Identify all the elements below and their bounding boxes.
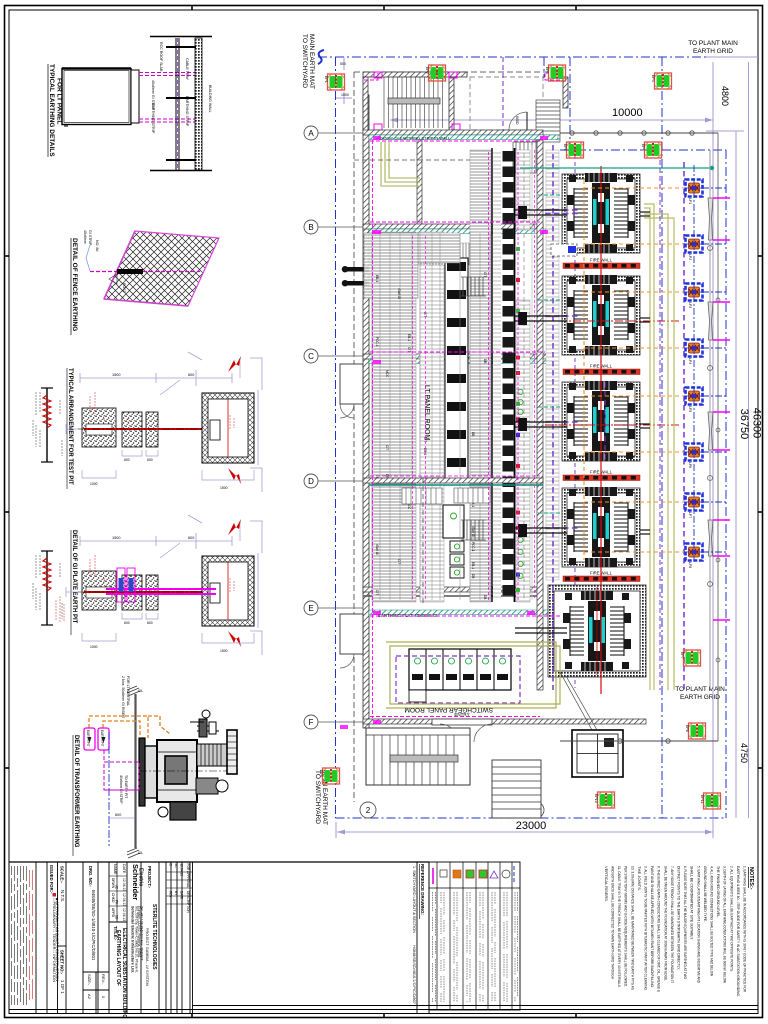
svg-text:5. EARTHING LAYOUT/EARTHING PI: 5. EARTHING LAYOUT/EARTHING PIT LOCATION… bbox=[696, 866, 701, 983]
svg-text:DATE: DATE bbox=[180, 891, 184, 899]
transformer body side view bbox=[139, 710, 237, 820]
svg-text:PROJECT:-: PROJECT:- bbox=[147, 866, 152, 889]
street light poles in plan bbox=[708, 198, 713, 556]
svg-text:C/T: C/T bbox=[407, 347, 411, 352]
external stair top right bbox=[513, 100, 560, 173]
svg-text:600: 600 bbox=[124, 621, 130, 625]
svg-text:EB-1: EB-1 bbox=[423, 448, 427, 455]
magenta earth strips bbox=[340, 73, 560, 729]
svg-text:A: A bbox=[308, 129, 314, 138]
svg-text:B4848/SE/SD-1/4810-1/C/PIC/D/8: B4848/SE/SD-1/4810-1/C/PIC/D/801 bbox=[91, 890, 96, 961]
fire wall bars bbox=[563, 263, 640, 269]
building right wall bbox=[537, 140, 543, 690]
svg-text:REFERENCE DRAWING:: REFERENCE DRAWING: bbox=[420, 864, 425, 916]
svg-text:Tel: +91 124 3940400 Fax: 3940: Tel: +91 124 3940400 Fax: 3940407 bbox=[140, 906, 144, 961]
row B wall band bbox=[363, 224, 543, 229]
svg-text:1000: 1000 bbox=[90, 482, 98, 486]
svg-text:■ APPROVAL □ AS BUILT □ CONST: ■ APPROVAL □ AS BUILT □ CONSTRUCTION bbox=[55, 898, 60, 981]
svg-text:EP10: EP10 bbox=[594, 794, 598, 803]
svg-text:SIZE:-: SIZE:- bbox=[87, 974, 92, 986]
earth pit symbol template usages bbox=[323, 65, 721, 809]
svg-text:SHALL BE TAKEN AROUND THE FOUN: SHALL BE TAKEN AROUND THE FOUNDATION AT … bbox=[663, 866, 668, 981]
legend table bbox=[429, 862, 520, 1010]
svg-text:AND BOTH ENDS SHALL BE CONNECT: AND BOTH ENDS SHALL BE CONNECTED TO MAIN… bbox=[611, 866, 616, 979]
svg-text:SCALE:-: SCALE:- bbox=[60, 866, 65, 884]
svg-text:600: 600 bbox=[124, 458, 130, 462]
lines from bay5 to pit box bbox=[560, 672, 592, 730]
LP symbols bbox=[686, 180, 703, 561]
svg-text:NAME: NAME bbox=[113, 864, 117, 875]
transformer bays right wing bbox=[520, 145, 714, 694]
svg-text:Electric: Electric bbox=[138, 868, 144, 886]
svg-text:JC: JC bbox=[174, 864, 178, 869]
dim texts bbox=[337, 118, 713, 835]
trench dividing walls vertical lines bbox=[372, 233, 490, 600]
D row partial wall bbox=[363, 478, 543, 483]
magenta dashed along row F bbox=[370, 716, 540, 718]
svg-text:DETAIL OF FENCE EARTHING: DETAIL OF FENCE EARTHING bbox=[71, 238, 78, 331]
svg-text:CHKD: CHKD bbox=[111, 893, 115, 903]
earthing bar through fence bbox=[117, 269, 143, 274]
svg-text:TO SWITCHYARD: TO SWITCHYARD bbox=[301, 34, 308, 88]
stair mid room 2 bbox=[461, 520, 486, 540]
teal dashed stubs left of bays bbox=[538, 195, 562, 513]
svg-text:600: 600 bbox=[188, 536, 194, 540]
row C wall band bbox=[363, 354, 548, 359]
svg-text:12.04.13: 12.04.13 bbox=[180, 864, 184, 877]
svg-text:EARTH PIT: EARTH PIT bbox=[100, 730, 104, 747]
svg-text:H4848/SE/SD/4810-1/C/PIC/D/807: H4848/SE/SD/4810-1/C/PIC/D/807 bbox=[412, 945, 416, 1004]
svg-text:DRG. NO:-: DRG. NO:- bbox=[88, 866, 93, 887]
svg-text:DB: DB bbox=[471, 432, 475, 436]
cable ducts from panel room to bays bbox=[515, 210, 567, 633]
svg-text:36750: 36750 bbox=[738, 409, 750, 440]
small ATS box below bay1 bbox=[551, 244, 577, 256]
corridor dashed lines bbox=[523, 145, 525, 600]
svg-text:TO PLANT MAIN: TO PLANT MAIN bbox=[688, 40, 738, 47]
svg-text:PAINT AND SHALL BE APPLIED WIT: PAINT AND SHALL BE APPLIED WITH BITUMEN … bbox=[650, 866, 655, 988]
svg-text:1000: 1000 bbox=[90, 645, 98, 649]
left annex small rooms outside wall rows B-C bbox=[340, 364, 363, 404]
svg-text:LP7: LP7 bbox=[688, 512, 692, 518]
left panels column bbox=[443, 258, 468, 578]
LT panel box bbox=[62, 69, 131, 125]
svg-text:LP2: LP2 bbox=[688, 254, 692, 260]
svg-text:B: B bbox=[308, 223, 313, 232]
olive cable loop right of bays bbox=[644, 204, 674, 690]
extra horizontal trench band below row B bbox=[372, 233, 460, 263]
svg-text:GI STRIP: GI STRIP bbox=[88, 230, 92, 246]
top staircase steps bbox=[384, 77, 443, 128]
svg-text:LP6: LP6 bbox=[688, 462, 692, 468]
oil tank bottom bbox=[170, 802, 196, 820]
svg-text:10000: 10000 bbox=[612, 107, 643, 119]
title block outline bbox=[9, 861, 429, 863]
to plant main earth grid text top right bbox=[688, 40, 738, 55]
svg-text:EP6: EP6 bbox=[641, 144, 645, 151]
building left wall bbox=[363, 95, 369, 728]
svg-text:DETAIL OF GI PLATE EARTH PIT: DETAIL OF GI PLATE EARTH PIT bbox=[71, 530, 77, 624]
HV bushings top bbox=[190, 710, 219, 737]
svg-text:1500: 1500 bbox=[220, 486, 228, 490]
wall section bbox=[150, 36, 212, 38]
svg-text:DB: DB bbox=[483, 359, 487, 363]
svg-text:SHEET NO:-: SHEET NO:- bbox=[60, 950, 65, 975]
svg-text:Schneider Electric Infrastruct: Schneider Electric Infrastructure Ltd. bbox=[131, 906, 135, 973]
svg-text:THE JOINTS.: THE JOINTS. bbox=[637, 866, 642, 891]
svg-text:EARTHING LAYOUT OF: EARTHING LAYOUT OF bbox=[115, 930, 121, 986]
bottom fence line with posts bbox=[560, 740, 718, 742]
svg-text:NOTES:-: NOTES:- bbox=[748, 867, 754, 890]
magenta door/corner accents bbox=[340, 136, 548, 729]
svg-text:MAIN EARTH MAT: MAIN EARTH MAT bbox=[308, 34, 315, 89]
svg-text:PROJECT GAMBIA - LV SYSTEM: PROJECT GAMBIA - LV SYSTEM bbox=[145, 928, 149, 986]
row A wall band bbox=[363, 130, 543, 135]
svg-text:EP7: EP7 bbox=[680, 652, 684, 659]
orange dashed laterals to LPs bbox=[584, 180, 688, 560]
svg-text:STERLITE TECHNOLOGIES: STERLITE TECHNOLOGIES bbox=[151, 904, 157, 970]
svg-text:DISTINCT POINTS TO THE EARTH S: DISTINCT POINTS TO THE EARTH STRIP/EARTH… bbox=[677, 866, 682, 970]
room door arcs row A/B bbox=[432, 240, 452, 260]
svg-text:C/T: C/T bbox=[375, 590, 379, 595]
scale and sheet no bbox=[58, 945, 67, 947]
svg-text:EB-1: EB-1 bbox=[375, 275, 379, 282]
svg-text:GL: GL bbox=[138, 688, 144, 693]
svg-text:12.04.13: 12.04.13 bbox=[122, 878, 126, 891]
svg-text:1500: 1500 bbox=[112, 536, 120, 540]
svg-text:12.04.13: 12.04.13 bbox=[122, 893, 126, 906]
svg-text:TO EARTH PIT: TO EARTH PIT bbox=[124, 775, 128, 798]
svg-text:DATE: DATE bbox=[122, 864, 126, 874]
svg-text:EP11: EP11 bbox=[700, 795, 704, 804]
magenta dashed verticals mid room bbox=[412, 236, 414, 600]
6 switchgear panels bbox=[409, 649, 511, 702]
svg-text:TO SWITCHYARD: TO SWITCHYARD bbox=[314, 770, 321, 824]
svg-text:EB-1: EB-1 bbox=[471, 562, 475, 569]
olive loop bbox=[390, 646, 560, 704]
to switchyard text bottom bbox=[314, 770, 328, 825]
svg-text:EP2: EP2 bbox=[425, 67, 429, 74]
svg-text:ISSUED FOR:-: ISSUED FOR:- bbox=[49, 865, 54, 894]
lavender dimension lines bbox=[336, 57, 758, 838]
svg-text:TYPICAL ARRANGEMENT FOR TEST P: TYPICAL ARRANGEMENT FOR TEST PIT bbox=[67, 368, 73, 485]
svg-text:PCC-1: PCC-1 bbox=[375, 337, 379, 347]
svg-text:6. PLEASE NOTE THAT ALL THE MA: 6. PLEASE NOTE THAT ALL THE MAJOR EQUIPM… bbox=[683, 866, 688, 979]
svg-text:2. ALL EQUIPMENTS SHALL BE EAR: 2. ALL EQUIPMENTS SHALL BE EARTHED AT TW… bbox=[729, 866, 734, 972]
svg-text:C: C bbox=[308, 352, 314, 361]
svg-text:PER STATUTORY NORMS AND IS COD: PER STATUTORY NORMS AND IS CODE REQUIREM… bbox=[624, 866, 629, 987]
svg-text:600: 600 bbox=[147, 458, 153, 462]
svg-text:EARTH PIT: EARTH PIT bbox=[86, 730, 90, 747]
svg-text:EP4: EP4 bbox=[651, 75, 655, 82]
svg-text:12.04.13: 12.04.13 bbox=[122, 908, 126, 921]
svg-text:SWITCHGEAR PANEL ROOM: SWITCHGEAR PANEL ROOM bbox=[405, 706, 493, 713]
tiny print copyright column bbox=[12, 866, 27, 1005]
svg-text:LP3: LP3 bbox=[688, 302, 692, 308]
svg-text:1500: 1500 bbox=[112, 373, 120, 377]
svg-text:NO. 8d: NO. 8d bbox=[95, 240, 99, 251]
svg-text:THE FINISHED GROUND LEVEL.: THE FINISHED GROUND LEVEL. bbox=[716, 866, 721, 918]
svg-text:LT PANEL ROOM: LT PANEL ROOM bbox=[423, 385, 430, 441]
blue dash-dot main earth grid loop bbox=[318, 57, 752, 818]
svg-text:EARTH GRID: EARTH GRID bbox=[693, 48, 733, 55]
svg-text:N.T.S.: N.T.S. bbox=[60, 890, 65, 902]
trench textures LT panel room bbox=[372, 232, 416, 602]
magenta wall end marks row A bbox=[374, 72, 460, 130]
magenta dashed earthing strips along walls bbox=[364, 73, 560, 616]
purple dashed loop around panels bbox=[396, 656, 520, 703]
heavy purple dashed routing bbox=[545, 145, 684, 690]
svg-text:DB: DB bbox=[471, 574, 475, 578]
row F wall band bbox=[363, 719, 646, 724]
svg-text:46300: 46300 bbox=[751, 408, 763, 439]
drawn/checked table bbox=[109, 921, 127, 923]
svg-text:600D: 600D bbox=[515, 116, 519, 125]
magenta verticals near right wall bbox=[534, 150, 536, 600]
svg-text:REV:-: REV:- bbox=[101, 974, 106, 985]
svg-text:10. 3.0m (MIN) DISTANCE SHALL: 10. 3.0m (MIN) DISTANCE SHALL BE MAINTAI… bbox=[630, 866, 635, 990]
svg-text:600: 600 bbox=[188, 373, 194, 377]
bottom grid bubbles bbox=[360, 802, 376, 818]
blue dash-dot boundary bbox=[108, 732, 110, 846]
svg-text:RCC ROOF SLAB: RCC ROOF SLAB bbox=[159, 42, 163, 72]
bottom-left staircase bbox=[366, 728, 470, 785]
ground line vertical bbox=[134, 694, 136, 848]
svg-text:REV: REV bbox=[169, 891, 173, 898]
red dash-dot laterals bbox=[545, 321, 680, 425]
svg-text:EP9: EP9 bbox=[319, 770, 323, 777]
lighting poles right bbox=[660, 150, 730, 690]
svg-text:2 Nos. 50x6mm GI RISER: 2 Nos. 50x6mm GI RISER bbox=[121, 676, 125, 718]
lighting pole grid line bbox=[709, 150, 711, 690]
svg-text:LP4: LP4 bbox=[688, 358, 692, 364]
svg-text:8. THE BURIED EARTH CONDUCTORS: 8. THE BURIED EARTH CONDUCTORS SHALL BE … bbox=[657, 866, 662, 992]
svg-text:BUILDING WALL: BUILDING WALL bbox=[208, 85, 212, 113]
svg-text:SHALL BE COORDINATED AT SITE S: SHALL BE COORDINATED AT SITE SUITABLY. bbox=[690, 866, 695, 940]
svg-text:1000: 1000 bbox=[341, 93, 349, 97]
svg-text:600: 600 bbox=[147, 621, 153, 625]
to switchyard text top bbox=[301, 34, 315, 89]
olive L-shape conduits in room bbox=[381, 142, 420, 186]
svg-text:APPD: APPD bbox=[111, 908, 115, 918]
svg-text:DB: DB bbox=[483, 595, 487, 599]
svg-text:JC: JC bbox=[115, 885, 119, 890]
svg-text:LP1: LP1 bbox=[688, 198, 692, 204]
internal wall below stair room bbox=[417, 135, 422, 230]
svg-text:PCC-1: PCC-1 bbox=[471, 542, 475, 552]
svg-text:1. SWITCHYARD LAYOUT & SECTION: 1. SWITCHYARD LAYOUT & SECTION bbox=[412, 866, 416, 933]
svg-text:4800: 4800 bbox=[720, 86, 730, 106]
svg-text:DETAIL OF TRANSFORMER EARTHING: DETAIL OF TRANSFORMER EARTHING bbox=[73, 735, 79, 848]
svg-text:1. EARTHING SHALL BE IN ACCORD: 1. EARTHING SHALL BE IN ACCORDANCE WITH … bbox=[743, 866, 748, 992]
svg-text:23000: 23000 bbox=[516, 820, 547, 832]
building outer dashed outline bbox=[354, 72, 560, 802]
svg-text:C/T: C/T bbox=[423, 312, 427, 317]
svg-text:ELECTRICAL SUBSTATION BUILDING: ELECTRICAL SUBSTATION BUILDING bbox=[121, 928, 127, 1018]
svg-text:11. CABLE TRAY IN THE TRENCH S: 11. CABLE TRAY IN THE TRENCH SHALL BE EA… bbox=[617, 866, 622, 987]
svg-text:EP3: EP3 bbox=[545, 67, 549, 74]
svg-text:GL: GL bbox=[138, 850, 144, 855]
drg no column bbox=[83, 971, 109, 973]
transformer symbols bbox=[567, 169, 635, 257]
svg-text:A2: A2 bbox=[87, 994, 92, 1000]
svg-text:FOR LT NEUTRAL: FOR LT NEUTRAL bbox=[126, 676, 130, 706]
svg-text:40x6mm: 40x6mm bbox=[83, 230, 87, 244]
blue squiggle arrow top bbox=[318, 50, 324, 64]
bay enclosures bbox=[562, 174, 640, 253]
svg-text:EARTH GRID: EARTH GRID bbox=[680, 694, 720, 701]
magenta ticks at poles bbox=[713, 198, 730, 620]
svg-text:EP8: EP8 bbox=[685, 725, 689, 732]
blue dash-dot stubs LP to pole line bbox=[694, 165, 726, 560]
svg-text:GROUND SHALL BE WELDED TYPE.: GROUND SHALL BE WELDED TYPE. bbox=[703, 866, 708, 922]
bottom-right pit box detail bbox=[572, 730, 623, 777]
magenta earth pit boxes bbox=[84, 728, 109, 750]
purple dashed vertical at 660/683 bbox=[659, 160, 661, 690]
purple dim 600 bbox=[109, 817, 135, 819]
bottom-center external stair bbox=[492, 760, 541, 818]
svg-text:40x6 GI: 40x6 GI bbox=[471, 526, 475, 537]
svg-text:EARTHING STRIP: EARTHING STRIP bbox=[185, 96, 189, 127]
svg-text:POST: POST bbox=[122, 283, 126, 294]
svg-text:4750: 4750 bbox=[739, 743, 749, 763]
svg-text:D: D bbox=[308, 477, 314, 486]
legend swatches bbox=[432, 868, 434, 884]
svg-text:40x6mm GI EARTHING STRIP IN WA: 40x6mm GI EARTHING STRIP IN WALL bbox=[378, 136, 451, 141]
revision table bbox=[166, 871, 193, 873]
grid line stubs and bubbles A-F bbox=[318, 133, 363, 722]
svg-text:2: 2 bbox=[366, 806, 371, 815]
entry door bottom bbox=[432, 719, 492, 725]
svg-text:LP5: LP5 bbox=[688, 406, 692, 412]
switchgear room bbox=[340, 364, 718, 818]
svg-text:7. ANY NOISE TRENCH SHALL BE M: 7. ANY NOISE TRENCH SHALL BE MAINTAINED … bbox=[670, 866, 675, 983]
top stair block walls bbox=[363, 72, 467, 77]
to plant main earth grid text bottom right bbox=[675, 686, 725, 701]
svg-text:E: E bbox=[308, 604, 313, 613]
svg-text:EB-1: EB-1 bbox=[407, 334, 411, 341]
svg-text:EARTHING STRIP: EARTHING STRIP bbox=[151, 103, 155, 134]
earth pits green bbox=[319, 65, 721, 809]
magenta dashed connection bbox=[104, 750, 139, 790]
GL hatch symbols bbox=[127, 686, 140, 858]
svg-text:TYPICAL EARTHING DETAILS: TYPICAL EARTHING DETAILS bbox=[48, 64, 55, 157]
cable seal dumbbells at left wall bbox=[342, 266, 369, 286]
purple dashed vertical top bbox=[502, 57, 504, 132]
legend descriptions greeked bbox=[433, 892, 518, 1002]
fence mesh parallelogram bbox=[104, 231, 219, 306]
ducts exiting bay right side bbox=[640, 212, 650, 534]
orange dashed GI strip runs bbox=[89, 716, 170, 738]
teal connector at top of bays bbox=[520, 167, 712, 169]
svg-text:1500: 1500 bbox=[220, 649, 228, 653]
svg-text:C/T: C/T bbox=[423, 437, 427, 442]
svg-text:4. ALL 40X6 GROUND CONNECTIONS: 4. ALL 40X6 GROUND CONNECTIONS SHALL BE … bbox=[710, 866, 715, 976]
svg-text:600: 600 bbox=[115, 813, 121, 817]
svg-text:40x6 GI: 40x6 GI bbox=[397, 288, 401, 299]
row E wall band bbox=[363, 587, 543, 592]
svg-text:500: 500 bbox=[340, 62, 346, 66]
svg-text:C/T: C/T bbox=[397, 559, 401, 564]
svg-text:EARTHING & IEEE 80 - ITEF GUID: EARTHING & IEEE 80 - ITEF GUIDE FOR SAFE… bbox=[736, 866, 741, 997]
svg-text:LP8: LP8 bbox=[688, 562, 692, 568]
svg-text:C/T: C/T bbox=[385, 445, 389, 450]
svg-text:EP5: EP5 bbox=[563, 144, 567, 151]
svg-text:C/T: C/T bbox=[483, 272, 487, 277]
dashed gray inner partitions bbox=[354, 160, 470, 605]
svg-text:9. ALL WELD JOINTS TO BE PAINT: 9. ALL WELD JOINTS TO BE PAINTED WITH BI… bbox=[644, 866, 649, 990]
svg-text:3. DEPTH OF LAYING OF ALL EART: 3. DEPTH OF LAYING OF ALL EARTHING CONDU… bbox=[723, 866, 728, 983]
svg-text:40x6 GI: 40x6 GI bbox=[375, 544, 379, 555]
svg-text:VERTICAL RISERS.: VERTICAL RISERS. bbox=[604, 866, 609, 902]
svg-text:MCC: MCC bbox=[385, 370, 389, 378]
svg-text:F: F bbox=[309, 718, 314, 727]
svg-text:DESCRIPTION: DESCRIPTION bbox=[186, 891, 190, 913]
svg-text:1 OF 1: 1 OF 1 bbox=[60, 980, 65, 994]
svg-text:EP1: EP1 bbox=[324, 76, 328, 83]
central panel column (black squares) bbox=[492, 148, 520, 602]
radiator bank right bbox=[197, 744, 227, 766]
svg-text:CABLE TRAY: CABLE TRAY bbox=[185, 58, 189, 81]
magenta dashed strip runs to wall bbox=[139, 73, 196, 123]
svg-text:DRWN: DRWN bbox=[111, 878, 115, 889]
svg-text:FOR APPROVAL: FOR APPROVAL bbox=[186, 864, 190, 889]
fence line row A with posts bbox=[560, 132, 718, 134]
red centerline through bays bbox=[600, 166, 602, 694]
small ladder mid room bbox=[461, 277, 486, 296]
